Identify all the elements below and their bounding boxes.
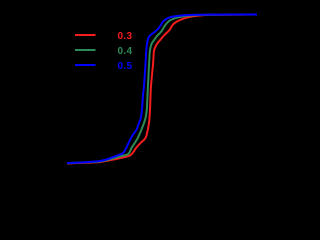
svg-text:0.5: 0.5 — [118, 61, 133, 72]
svg-text:0.4: 0.4 — [118, 46, 133, 57]
svg-text:0.3: 0.3 — [118, 31, 133, 42]
